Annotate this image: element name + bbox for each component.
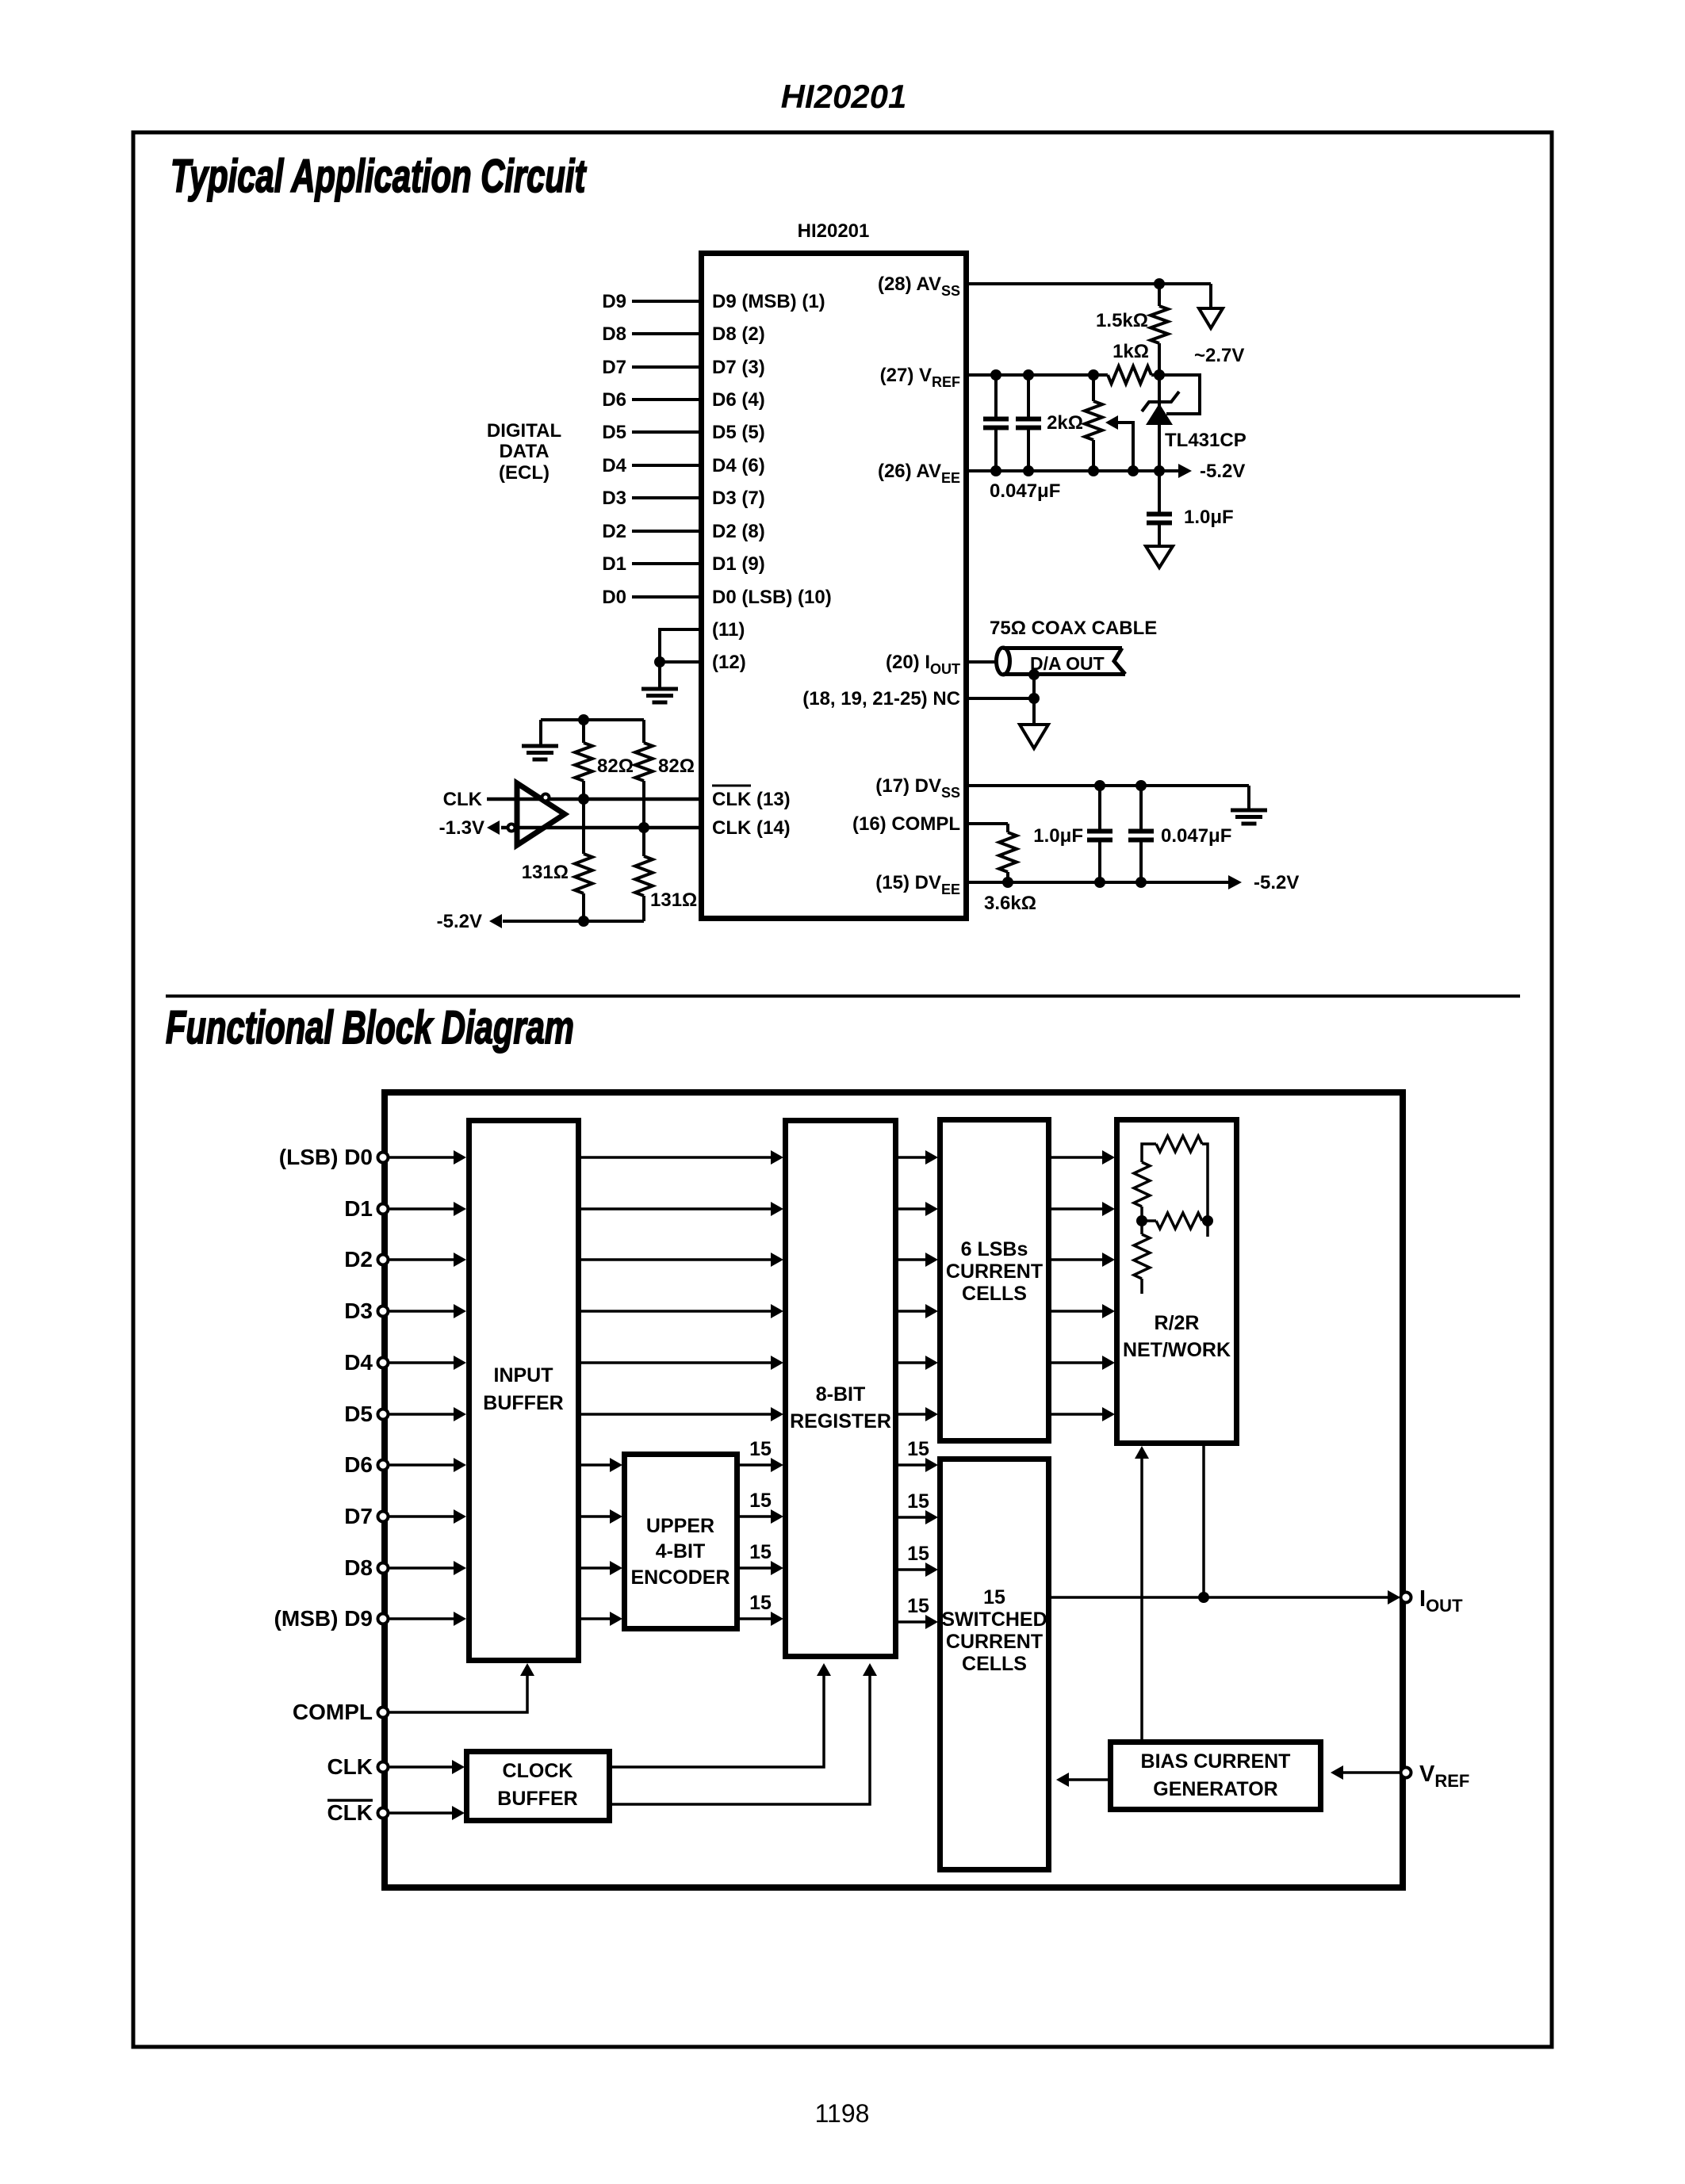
svg-text:(12): (12)	[712, 652, 746, 673]
svg-text:D3: D3	[344, 1299, 373, 1323]
svg-text:(18, 19, 21-25) NC: (18, 19, 21-25) NC	[802, 688, 960, 710]
svg-text:ENCODER: ENCODER	[630, 1566, 730, 1589]
svg-text:D9: D9	[602, 291, 626, 312]
svg-text:D0 (LSB) (10): D0 (LSB) (10)	[712, 587, 832, 608]
svg-text:D1 (9): D1 (9)	[712, 553, 765, 575]
svg-text:(MSB) D9: (MSB) D9	[274, 1606, 373, 1631]
svg-text:131Ω: 131Ω	[522, 862, 569, 883]
svg-text:NET/WORK: NET/WORK	[1123, 1339, 1231, 1361]
svg-text:D6: D6	[344, 1452, 373, 1477]
svg-text:CURRENT: CURRENT	[946, 1631, 1043, 1653]
svg-text:D4: D4	[344, 1350, 373, 1375]
svg-text:0.047μF: 0.047μF	[1161, 825, 1231, 847]
svg-text:15: 15	[983, 1586, 1005, 1608]
svg-text:HI20201: HI20201	[781, 78, 907, 115]
svg-text:D/A OUT: D/A OUT	[1030, 653, 1105, 674]
svg-text:REGISTER: REGISTER	[790, 1410, 891, 1432]
svg-text:INPUT: INPUT	[494, 1364, 553, 1387]
svg-text:D7 (3): D7 (3)	[712, 357, 765, 378]
svg-text:1kΩ: 1kΩ	[1112, 341, 1149, 362]
svg-text:CLK (13): CLK (13)	[712, 789, 791, 810]
svg-text:COMPL: COMPL	[293, 1700, 373, 1724]
svg-text:D8: D8	[602, 323, 626, 345]
svg-text:CLK: CLK	[443, 789, 483, 810]
svg-text:82Ω: 82Ω	[658, 755, 695, 777]
svg-text:D4: D4	[602, 455, 626, 476]
svg-text:D6: D6	[602, 389, 626, 411]
svg-text:D6 (4): D6 (4)	[712, 389, 765, 411]
svg-text:131Ω: 131Ω	[650, 889, 697, 911]
svg-text:1.5kΩ: 1.5kΩ	[1096, 310, 1148, 331]
svg-text:CLK (14): CLK (14)	[712, 817, 791, 839]
svg-text:HI20201: HI20201	[798, 220, 870, 242]
svg-text:8-BIT: 8-BIT	[816, 1383, 866, 1406]
svg-text:(16) COMPL: (16) COMPL	[852, 813, 960, 835]
svg-text:(ECL): (ECL)	[499, 462, 550, 484]
svg-text:3.6kΩ: 3.6kΩ	[984, 893, 1036, 914]
svg-text:D1: D1	[602, 553, 626, 575]
svg-text:1.0μF: 1.0μF	[1033, 825, 1083, 847]
svg-text:D5: D5	[602, 422, 626, 443]
svg-text:BUFFER: BUFFER	[483, 1392, 563, 1414]
svg-text:6 LSBs: 6 LSBs	[961, 1238, 1028, 1260]
svg-text:1198: 1198	[815, 2099, 870, 2128]
svg-text:D2: D2	[344, 1247, 373, 1272]
svg-text:D8: D8	[344, 1555, 373, 1580]
svg-text:0.047μF: 0.047μF	[990, 480, 1060, 502]
svg-text:D7: D7	[602, 357, 626, 378]
svg-text:15: 15	[907, 1543, 929, 1565]
svg-text:Functional Block Diagram: Functional Block Diagram	[166, 1001, 574, 1053]
svg-text:2kΩ: 2kΩ	[1047, 412, 1083, 434]
svg-text:D3: D3	[602, 488, 626, 509]
svg-text:(11): (11)	[712, 619, 745, 641]
svg-text:D5: D5	[344, 1402, 373, 1426]
svg-text:15: 15	[907, 1490, 929, 1513]
svg-text:15: 15	[749, 1438, 772, 1460]
svg-text:D7: D7	[344, 1504, 373, 1528]
svg-text:D5 (5): D5 (5)	[712, 422, 765, 443]
svg-text:CLK: CLK	[327, 1800, 373, 1825]
svg-text:DATA: DATA	[499, 441, 549, 462]
svg-text:15: 15	[907, 1595, 929, 1617]
svg-text:BIAS CURRENT: BIAS CURRENT	[1141, 1750, 1291, 1773]
svg-text:R/2R: R/2R	[1155, 1312, 1200, 1334]
svg-text:CELLS: CELLS	[962, 1283, 1027, 1305]
svg-text:DIGITAL: DIGITAL	[487, 420, 561, 442]
svg-text:D0: D0	[602, 587, 626, 608]
svg-text:~2.7V: ~2.7V	[1194, 345, 1244, 366]
svg-text:D2: D2	[602, 521, 626, 542]
svg-text:CURRENT: CURRENT	[946, 1260, 1043, 1283]
svg-text:(LSB) D0: (LSB) D0	[279, 1145, 373, 1169]
svg-text:GENERATOR: GENERATOR	[1153, 1778, 1277, 1800]
svg-text:D9 (MSB) (1): D9 (MSB) (1)	[712, 291, 825, 312]
svg-text:Typical Application Circuit: Typical Application Circuit	[170, 150, 587, 201]
svg-text:D1: D1	[344, 1196, 373, 1221]
svg-text:-5.2V: -5.2V	[1200, 461, 1245, 482]
svg-text:-1.3V: -1.3V	[439, 817, 484, 839]
svg-text:D4 (6): D4 (6)	[712, 455, 765, 476]
svg-text:BUFFER: BUFFER	[497, 1788, 577, 1810]
svg-text:D8 (2): D8 (2)	[712, 323, 765, 345]
svg-text:75Ω COAX CABLE: 75Ω COAX CABLE	[990, 618, 1157, 639]
svg-text:SWITCHED: SWITCHED	[941, 1608, 1047, 1631]
svg-text:82Ω: 82Ω	[597, 755, 634, 777]
svg-text:D3 (7): D3 (7)	[712, 488, 765, 509]
svg-text:4-BIT: 4-BIT	[656, 1540, 706, 1562]
svg-text:15: 15	[749, 1541, 772, 1563]
svg-text:UPPER: UPPER	[646, 1515, 714, 1537]
svg-text:CELLS: CELLS	[962, 1653, 1027, 1675]
svg-text:CLK: CLK	[327, 1754, 373, 1779]
svg-text:15: 15	[907, 1438, 929, 1460]
svg-text:1.0μF: 1.0μF	[1184, 507, 1234, 528]
svg-text:15: 15	[749, 1490, 772, 1512]
svg-text:-5.2V: -5.2V	[437, 911, 482, 932]
svg-text:-5.2V: -5.2V	[1254, 872, 1299, 893]
svg-text:TL431CP: TL431CP	[1165, 430, 1247, 451]
svg-text:15: 15	[749, 1592, 772, 1614]
svg-text:CLOCK: CLOCK	[503, 1760, 573, 1782]
svg-text:D2 (8): D2 (8)	[712, 521, 765, 542]
